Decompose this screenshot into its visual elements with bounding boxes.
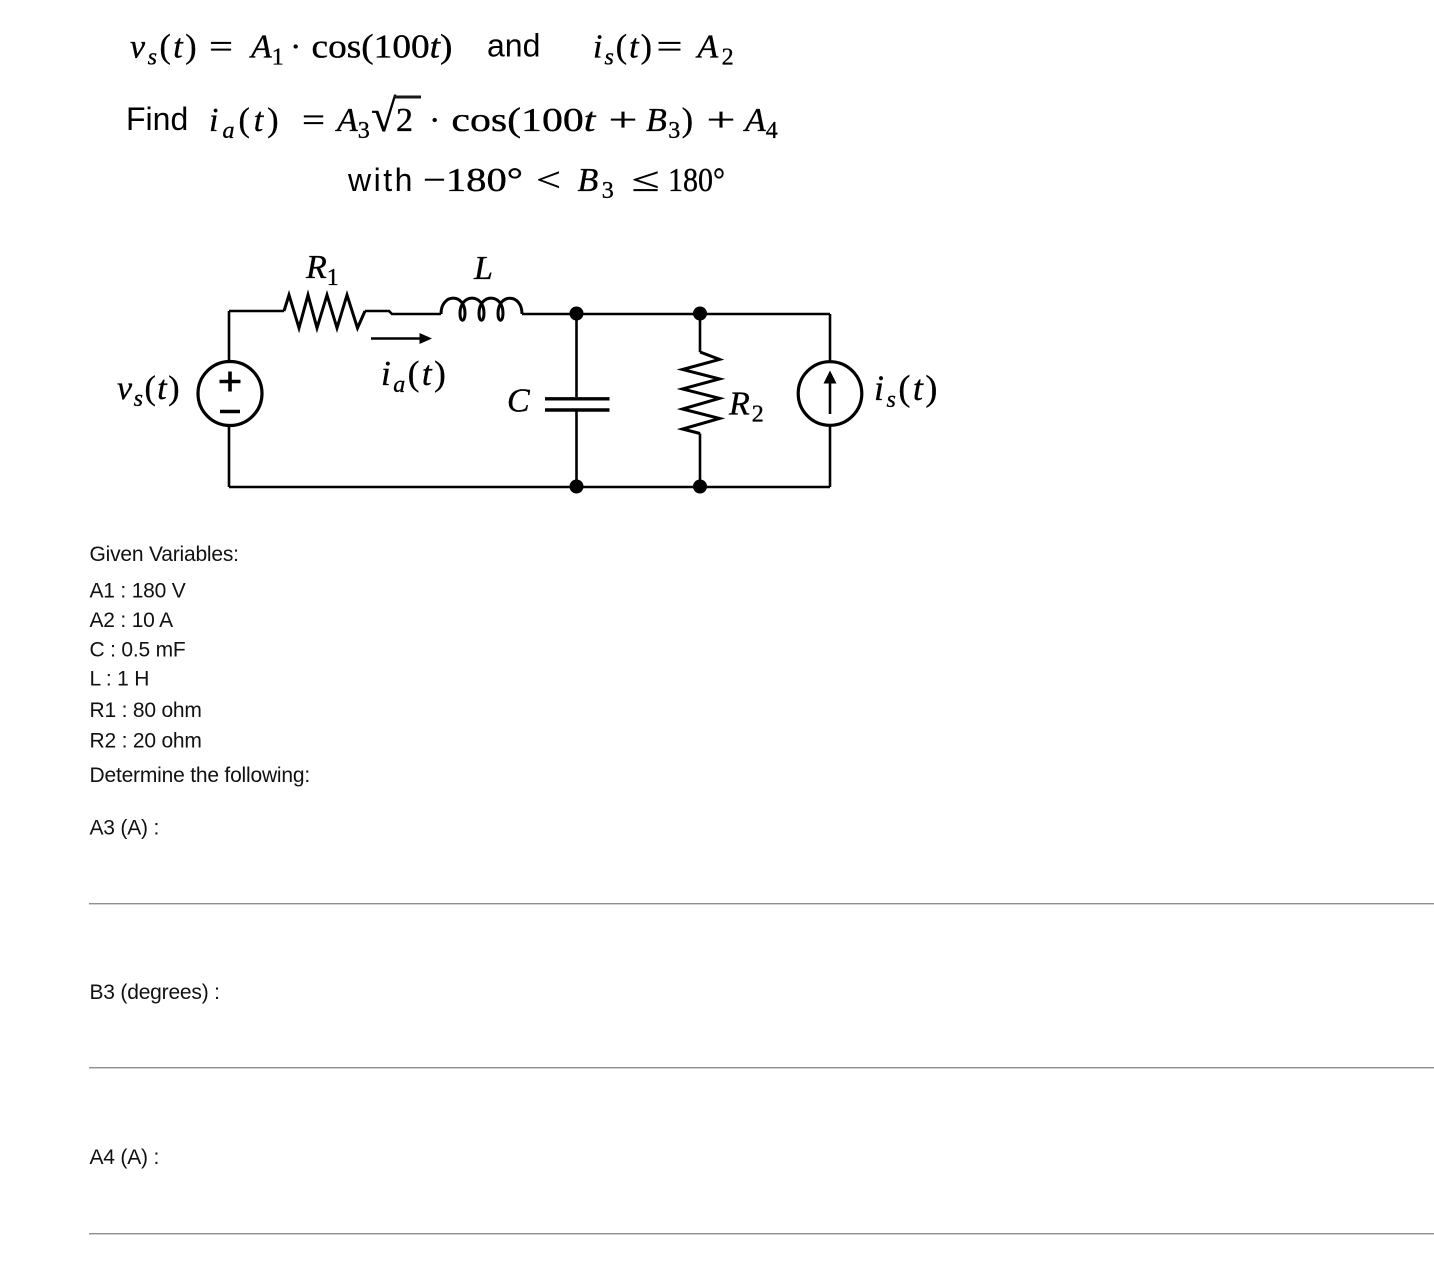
svg-text:=: = (209, 29, 233, 66)
capacitor C plates (545, 399, 610, 410)
svg-text:ia(t): ia(t) (381, 354, 448, 398)
svg-text:<: < (536, 162, 561, 199)
svg-text:ia(t): ia(t) (209, 102, 283, 144)
wire top-left segment (229, 310, 284, 313)
arrow ia(t) (371, 333, 432, 344)
svg-text:·: · (290, 29, 301, 66)
given variables text (90, 543, 310, 787)
equation line 1: vs(t) = A1 cos(100t) and is(t) = A2 (130, 28, 737, 71)
svg-text:Find: Find (126, 101, 188, 137)
node B top R2 junction (693, 307, 707, 321)
capacitor C branch top wire (575, 314, 578, 397)
svg-text:A1 : 180 V: A1 : 180 V (90, 580, 186, 603)
label R1 (305, 249, 339, 291)
separator line 1 (89, 903, 1434, 904)
svg-text:A3 (A) :: A3 (A) : (90, 817, 160, 840)
label vs(t) (117, 370, 181, 412)
left wire down from corner (228, 311, 231, 362)
svg-text:+: + (609, 102, 638, 139)
inductor L (441, 298, 522, 320)
node A top capacitor junction (570, 307, 584, 321)
equation line 3: with -180 < B3 <= 180 (347, 162, 725, 204)
svg-text:and: and (487, 28, 540, 64)
resistor R2 (683, 352, 720, 434)
voltage source minus sign (220, 410, 240, 414)
current source arrow (824, 371, 837, 415)
separator line 3 (89, 1233, 1434, 1234)
svg-text:vs(t): vs(t) (130, 29, 199, 71)
label L (473, 250, 493, 287)
svg-text:−180°: −180° (423, 162, 523, 199)
svg-text:R2 : 20 ohm: R2 : 20 ohm (90, 729, 202, 752)
wire inductor to right corner (522, 313, 830, 316)
label is(t) (874, 368, 940, 413)
wire resistor to inductor (365, 311, 441, 314)
svg-text:R1 : 80 ohm: R1 : 80 ohm (90, 699, 202, 722)
svg-text:with: with (347, 162, 415, 198)
label R2 (728, 386, 766, 428)
right wire down from corner (829, 314, 832, 362)
capacitor C bottom wire (575, 412, 578, 488)
answer label A3 (90, 817, 160, 840)
current source is circle (798, 362, 862, 426)
svg-text:·: · (429, 102, 440, 139)
voltage source vs circle (198, 362, 262, 426)
svg-text:Determine the following:: Determine the following: (90, 764, 310, 787)
wire below current source (829, 425, 832, 487)
svg-text:+: + (707, 102, 736, 139)
svg-text:L: L (473, 250, 493, 287)
resistor R2 branch top wire (699, 314, 702, 352)
answer label A4 (90, 1146, 160, 1169)
svg-text:B3 (degrees) :: B3 (degrees) : (90, 981, 220, 1004)
svg-text:=: = (657, 29, 683, 66)
answer label B3 (90, 981, 220, 1004)
wire below voltage source (228, 426, 231, 488)
equation line 2: Find ia(t) = A3 sqrt2 cos(100t+B3)+A4 (126, 90, 778, 144)
svg-text:is(t): is(t) (874, 368, 940, 413)
svg-text:vs(t): vs(t) (117, 370, 181, 412)
label ia(t) (381, 354, 448, 398)
resistor R1 (284, 295, 365, 328)
svg-text:Given Variables:: Given Variables: (90, 543, 239, 566)
voltage source plus sign (220, 372, 241, 392)
svg-text:A2 : 10 A: A2 : 10 A (90, 609, 174, 632)
svg-text:cos(100t): cos(100t) (312, 29, 453, 66)
resistor R2 bottom wire (699, 434, 702, 488)
svg-text:C : 0.5 mF: C : 0.5 mF (90, 638, 186, 661)
label C (507, 383, 530, 420)
node D bottom R2 junction (693, 480, 707, 494)
svg-text:≤: ≤ (632, 162, 660, 199)
svg-text:180°: 180° (668, 162, 725, 199)
bottom wire (229, 486, 830, 489)
svg-text:A4 (A) :: A4 (A) : (90, 1146, 160, 1169)
node C bottom capacitor junction (570, 480, 584, 494)
svg-text:is(t): is(t) (593, 29, 654, 71)
separator line 2 (89, 1067, 1434, 1068)
svg-text:=: = (302, 102, 325, 139)
svg-text:C: C (507, 383, 530, 420)
svg-text:2: 2 (396, 102, 413, 139)
svg-text:√: √ (371, 90, 397, 141)
svg-text:L : 1 H: L : 1 H (90, 668, 150, 691)
svg-text:cos(100t: cos(100t (451, 102, 597, 139)
